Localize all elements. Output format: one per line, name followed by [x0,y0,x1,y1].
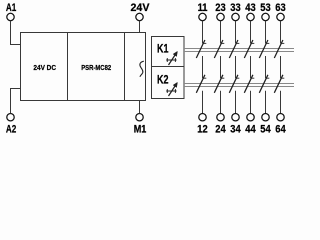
wire between contacts 53-54 [265,56,267,78]
terminal 34 [230,114,241,136]
wire 34 down [235,91,237,114]
contact K2 path 43-44 [244,75,254,93]
wire between contacts 43-44 [250,56,252,78]
wire 23 down [220,21,222,44]
svg-text:PSR-MC82: PSR-MC82 [81,64,111,72]
svg-text:24V DC: 24V DC [33,63,56,72]
contact K1 path 33-34 [229,40,239,58]
svg-text:12: 12 [197,124,208,135]
wire A1 to box [11,21,21,45]
contact K1 path 43-44 [244,40,254,58]
svg-text:24: 24 [215,124,226,135]
svg-text:A2: A2 [6,124,16,135]
terminal 64 [275,114,286,136]
terminal 11 [198,2,208,20]
wire 24V to box [139,21,141,33]
svg-text:33: 33 [230,2,241,14]
contact K2 path 11-12 [196,75,206,93]
mechanical linkage K2 (double line) [184,84,294,87]
wire between contacts 33-34 [235,56,237,78]
wire between contacts 11-12 [202,56,204,78]
device box PSR-MC82 [21,33,146,101]
terminal 43 [245,2,256,20]
relay K2 box [152,67,185,99]
wire 43 down [250,21,252,44]
terminal A1 [6,2,17,21]
svg-text:63: 63 [275,2,286,14]
wire between contacts 63-64 [280,56,282,78]
contact K2 path 23-24 [214,75,224,93]
svg-text:53: 53 [260,2,271,14]
contact K2 path 63-64 [274,75,284,93]
coil symbol K1 [166,51,177,65]
svg-text:K2: K2 [157,74,169,86]
terminal 63 [275,2,286,20]
svg-text:A1: A1 [6,2,17,15]
terminal 23 [215,2,226,20]
svg-text:54: 54 [260,124,271,135]
terminal M1 [134,114,147,136]
terminal A2 [6,114,16,137]
contact K2 path 33-34 [229,75,239,93]
wire 53 down [265,21,267,44]
svg-text:44: 44 [245,124,256,135]
wire 33 down [235,21,237,44]
terminal 12 [197,114,208,136]
svg-text:34: 34 [230,124,241,135]
section divider 1 [67,33,69,101]
wire 12 down [202,91,204,114]
section divider 2 [124,33,126,101]
wire between contacts 23-24 [220,56,222,78]
galvanic isolation symbol [140,61,144,77]
wire 63 down [280,21,282,44]
wire M1 from box [139,101,141,114]
wire 24 down [220,91,222,114]
wire 54 down [265,91,267,114]
contact K1 path 11-12 [196,40,206,58]
contact K2 path 53-54 [259,75,269,93]
terminal 24V [131,2,151,21]
wire 64 down [280,91,282,114]
contact K1 path 23-24 [214,40,224,58]
svg-text:11: 11 [198,2,208,14]
terminal 54 [260,114,271,136]
mechanical linkage K1 (double line) [184,49,294,52]
svg-text:M1: M1 [134,124,147,135]
terminal 53 [260,2,271,20]
coil symbol K2 [166,82,177,96]
wire 11 down [202,21,204,44]
relay K1 box [152,37,185,67]
svg-text:64: 64 [275,124,286,135]
wire 44 down [250,91,252,114]
svg-text:24V: 24V [131,2,151,14]
wire A2 to box [11,89,21,114]
contact K1 path 53-54 [259,40,269,58]
terminal 24 [215,114,226,136]
svg-text:23: 23 [215,2,226,14]
contact K1 path 63-64 [274,40,284,58]
svg-text:43: 43 [245,2,256,14]
terminal 33 [230,2,241,20]
svg-text:K1: K1 [157,43,169,55]
terminal 44 [245,114,256,136]
